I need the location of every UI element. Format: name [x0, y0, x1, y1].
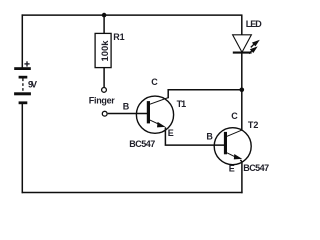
resistor R1 body [95, 33, 111, 67]
terminal open circle upper (touch pad) [102, 88, 107, 93]
transistor T1 base bar [147, 101, 150, 123]
svg-text:Finger: Finger [89, 96, 115, 106]
LED emission arrow lower [249, 46, 258, 53]
wire T2 emitter down to bottom rail [240, 160, 242, 194]
transistor T2 emitter line with arrow [227, 153, 242, 160]
svg-text:BC547: BC547 [129, 139, 155, 149]
svg-text:B: B [206, 132, 213, 142]
wire left rail lower [21, 103, 23, 193]
terminal open circle lower (touch pad) [102, 111, 107, 116]
svg-text:100k: 100k [99, 40, 110, 62]
wire T1 base lead [108, 113, 149, 115]
svg-text:C: C [151, 77, 158, 87]
wire T1 emitter down and right to T2 base [165, 127, 226, 145]
wire R1 top lead [103, 15, 105, 33]
LED emission arrow upper [251, 40, 260, 48]
svg-text:9V: 9V [28, 80, 37, 90]
wire bottom rail [22, 192, 243, 194]
node junction dot top (R1 to top rail) [102, 13, 107, 18]
transistor T1 emitter line with arrow [150, 120, 166, 128]
svg-text:T1: T1 [177, 99, 187, 109]
transistor T1 collector line [150, 98, 169, 105]
wire top rail [22, 14, 243, 16]
svg-text:LED: LED [246, 19, 262, 29]
battery plus label [24, 61, 29, 66]
wire right rail T2 collector up to junction [241, 90, 243, 131]
transistor T1 circle [136, 96, 173, 133]
wire R1 bottom lead [103, 68, 105, 87]
svg-text:T2: T2 [248, 120, 259, 130]
svg-text:E: E [229, 163, 235, 173]
transistor T2 collector line [227, 130, 242, 136]
LED D1 triangle [233, 35, 252, 52]
svg-text:B: B [123, 102, 130, 112]
svg-text:R1: R1 [113, 32, 125, 42]
wire LED cathode down to junction [241, 53, 243, 90]
wire left rail upper [21, 14, 23, 68]
transistor T2 circle [214, 128, 251, 165]
battery BT1 9V [14, 67, 31, 104]
transistor T2 base bar [224, 132, 227, 154]
wire right rail top to LED [241, 15, 243, 35]
svg-text:BC547: BC547 [243, 163, 269, 173]
LED cathode bar [233, 52, 252, 54]
svg-text:C: C [231, 111, 238, 121]
wire T1 collector to right rail [168, 90, 242, 98]
node junction dot right rail [240, 88, 245, 93]
svg-text:E: E [168, 128, 174, 138]
